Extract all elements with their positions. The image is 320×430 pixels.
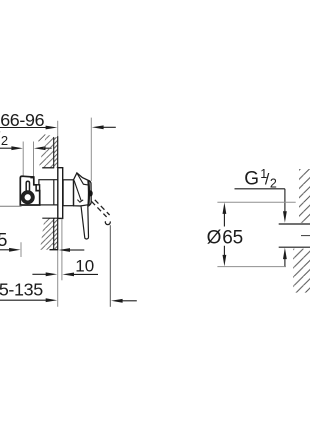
wall lower: tile strip hatch — [54, 218, 58, 249]
wall upper: tile strip hatch — [54, 137, 58, 167]
extension line lever end x=110.3 — [109, 225, 111, 307]
handle knob outline — [74, 173, 92, 206]
valve rough body outline — [20, 176, 39, 205]
dimension tail right of wall face — [70, 249, 85, 251]
right wall hatch upper — [299, 169, 310, 223]
wall upper: stray hatch line top — [38, 134, 45, 141]
valve rear housing in wall opening — [39, 180, 54, 205]
dimension 66-96 right tail — [103, 126, 115, 128]
dimension D65 extension bottom — [217, 266, 286, 268]
svg-text:65: 65 — [222, 227, 243, 248]
dimension G1/2 line left — [0, 147, 12, 149]
knob bottom v mark — [77, 200, 83, 203]
extension line x=23.2 — [22, 142, 24, 176]
extension line escutcheon face x=61.9 — [61, 219, 63, 280]
dimension arrow at lever-end line (pointing left) — [111, 299, 123, 303]
extension line knob face x=91.3 — [90, 118, 92, 181]
lever attachment nub — [89, 190, 93, 196]
knob front face inner line — [87, 181, 90, 205]
pipe opening bottom line — [279, 246, 310, 248]
valve screw stem — [26, 181, 29, 192]
escutcheon plate — [58, 168, 63, 219]
svg-text:G: G — [244, 168, 259, 189]
dimension G1/2 right tail — [45, 147, 51, 149]
dimension D65 arrow down — [223, 255, 227, 267]
dimension G1/2 arrow right — [11, 146, 23, 150]
dimension 5-135 line — [0, 299, 46, 301]
svg-text:5: 5 — [0, 230, 7, 250]
wall lower: strip right line (wall face) — [57, 218, 59, 249]
dimension 66-96 arrow right — [46, 126, 58, 130]
valve body top lip — [30, 176, 34, 178]
dimension tail right of lever-end line — [122, 300, 136, 302]
knob facet line B — [77, 174, 88, 185]
wall lower: top cap — [42, 217, 63, 219]
G 1/2 leader vertical — [284, 189, 286, 212]
valve supply port circle outer — [21, 191, 34, 204]
cartridge pass-through stubs at wall plane — [54, 180, 58, 205]
lever swung position (dashed) lower line — [91, 201, 106, 217]
dimension G1/2 arrow left (outside right) — [34, 146, 46, 150]
dimension 66-96 right arrow (pointing left at knob face line) — [92, 125, 104, 129]
extension line wall finished surface x=57.7 — [57, 121, 59, 307]
dimension 5 line — [0, 249, 10, 251]
wall lower: hatch field — [37, 216, 55, 251]
wall upper: strip left line — [53, 137, 55, 168]
dimension D65 vertical line — [223, 213, 225, 256]
lever swung position (dashed) upper line — [95, 200, 110, 215]
valve supply port circle inner ring — [23, 193, 32, 202]
valve port block — [36, 185, 39, 191]
dimension 10 right tail — [74, 273, 98, 275]
wall upper: strip right line (wall face) — [57, 136, 59, 167]
dimension 10 arrow right — [46, 272, 58, 276]
knob facet line A — [74, 180, 81, 200]
extension line at body bottom left — [0, 205, 22, 207]
svg-text:10: 10 — [75, 256, 94, 275]
lever swung end cap — [105, 221, 110, 224]
wall lower: bottom cap — [50, 249, 59, 251]
right wall hatch lower — [293, 249, 310, 293]
pipe opening top line — [279, 223, 310, 225]
wall upper: hatch field — [36, 133, 55, 169]
G 1/2 arrow up (at pipe bottom) — [283, 248, 287, 260]
extension line x=33.5 — [33, 142, 35, 177]
trim sleeve — [63, 180, 73, 206]
lever (solid position) — [81, 205, 89, 239]
dimension 66-96 line — [0, 127, 46, 129]
svg-text:2: 2 — [1, 133, 8, 148]
dimension 5-135 arrow right — [46, 298, 58, 302]
dimension 5 arrow right — [9, 248, 21, 252]
wall lower: strip left line — [53, 218, 55, 249]
wall upper: bottom cap — [42, 167, 54, 169]
dimension 10 arrow left — [62, 273, 74, 277]
G 1/2 arrow up tail — [284, 259, 286, 267]
extension line body left x=21 — [20, 242, 22, 257]
dimension D65 extension top — [217, 201, 295, 203]
pipe centerline tick — [301, 235, 310, 237]
dimension arrow at wall face (pointing left) — [58, 248, 70, 252]
dimension D65 arrow up — [223, 202, 227, 214]
G 1/2 leader underline — [235, 188, 285, 190]
G 1/2 arrow down (at pipe top) — [283, 211, 287, 223]
svg-text:Ø: Ø — [207, 227, 222, 248]
dimension 10 left tail — [32, 273, 46, 275]
svg-text:5-135: 5-135 — [0, 280, 43, 300]
